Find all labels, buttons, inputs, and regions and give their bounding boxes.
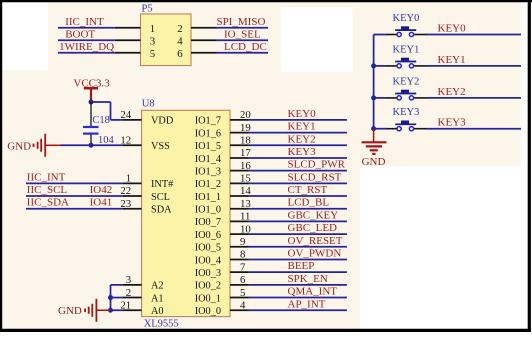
pushbutton KEY3 <box>386 128 397 130</box>
svg-text:KEY2: KEY2 <box>438 86 466 98</box>
U8 pin 16 (IO1_3) <box>230 170 249 172</box>
svg-text:IIC_SDA: IIC_SDA <box>27 197 69 209</box>
svg-text:IO1_2: IO1_2 <box>195 179 221 190</box>
junction <box>371 126 376 131</box>
U8 pin 14 (IO1_1) <box>230 195 249 197</box>
wire <box>249 284 347 286</box>
wire <box>217 52 269 54</box>
svg-text:4: 4 <box>177 36 183 48</box>
wire <box>426 97 521 99</box>
svg-text:LCD_BL: LCD_BL <box>288 197 330 209</box>
wire <box>26 195 123 197</box>
wire <box>249 132 347 134</box>
wire <box>249 297 347 299</box>
U8 pin 13 (IO1_0) <box>230 208 249 210</box>
svg-text:IIC_INT: IIC_INT <box>65 16 104 28</box>
P5 pin 5 <box>115 52 141 54</box>
svg-text:IO_SEL: IO_SEL <box>224 28 261 40</box>
svg-text:3: 3 <box>150 36 155 48</box>
wire <box>374 34 387 36</box>
svg-text:U8: U8 <box>142 99 155 110</box>
svg-text:IO1_0: IO1_0 <box>195 205 221 216</box>
svg-text:6: 6 <box>177 48 183 60</box>
U8 pin 11 (IO0_7) <box>230 220 249 222</box>
U8 pin 24 (VDD) <box>123 119 142 121</box>
svg-text:IO0_1: IO0_1 <box>195 293 221 304</box>
wire <box>249 271 347 273</box>
pushbutton KEY1 <box>386 65 397 67</box>
svg-text:KEY3: KEY3 <box>438 117 467 129</box>
svg-text:4: 4 <box>240 299 246 311</box>
svg-text:INT#: INT# <box>151 179 173 190</box>
wire <box>249 144 347 146</box>
U8 pin 19 (IO1_6) <box>230 132 249 134</box>
U8 pin 18 (IO1_5) <box>230 144 249 146</box>
svg-text:VDD: VDD <box>151 116 174 127</box>
svg-text:KEY0: KEY0 <box>288 108 317 120</box>
svg-text:IO0_3: IO0_3 <box>195 268 221 279</box>
svg-text:IO1_3: IO1_3 <box>195 166 221 177</box>
svg-text:12: 12 <box>120 134 131 146</box>
svg-text:KEY3: KEY3 <box>393 107 420 118</box>
svg-text:IO1_6: IO1_6 <box>195 128 221 139</box>
wire A2 bus <box>111 284 123 286</box>
svg-text:QMA_INT: QMA_INT <box>288 286 338 298</box>
wire <box>217 39 269 41</box>
svg-text:KEY0: KEY0 <box>393 13 420 24</box>
svg-text:2: 2 <box>126 287 131 299</box>
svg-text:OV_PWDN: OV_PWDN <box>288 247 342 259</box>
connector P5 body <box>141 14 192 66</box>
svg-text:KEY1: KEY1 <box>288 121 316 133</box>
U8 pin 21 (A0) <box>123 309 142 311</box>
svg-text:IO1_1: IO1_1 <box>195 192 221 203</box>
U8 pin 22 (SCL) <box>123 195 142 197</box>
U8 pin 12 (VSS) <box>123 144 142 146</box>
svg-text:IO42: IO42 <box>90 184 113 196</box>
P5 pin 6 <box>191 52 217 54</box>
svg-text:IO0_5: IO0_5 <box>195 243 221 254</box>
junction <box>371 63 376 68</box>
junction <box>371 95 376 100</box>
svg-text:3: 3 <box>126 274 131 286</box>
U8 pin 4 (IO0_0) <box>230 309 249 311</box>
wire key bus <box>373 35 375 129</box>
svg-text:IO0_0: IO0_0 <box>195 306 221 317</box>
svg-text:KEY3: KEY3 <box>288 146 317 158</box>
svg-text:OV_RESET: OV_RESET <box>288 235 343 247</box>
svg-text:IO0_7: IO0_7 <box>195 217 221 228</box>
svg-text:GBC_LED: GBC_LED <box>288 222 338 234</box>
U8 pin 17 (IO1_4) <box>230 157 249 159</box>
wire <box>249 258 347 260</box>
svg-text:BEEP: BEEP <box>288 260 315 272</box>
svg-text:LCD_DC: LCD_DC <box>224 41 267 53</box>
pushbutton KEY2 <box>386 97 397 99</box>
U8 pin 2 (A1) <box>123 297 142 299</box>
svg-text:SPK_EN: SPK_EN <box>288 273 328 285</box>
wire <box>249 182 347 184</box>
P5 pin 3 <box>115 39 141 41</box>
wire <box>426 65 521 67</box>
wire <box>58 52 115 54</box>
U8 pin 23 (SDA) <box>123 208 142 210</box>
junction <box>89 143 94 148</box>
svg-text:KEY0: KEY0 <box>438 23 467 35</box>
svg-text:SLCD_PWR: SLCD_PWR <box>288 159 346 171</box>
P5 pin 4 <box>191 39 217 41</box>
svg-text:KEY1: KEY1 <box>393 44 420 55</box>
wire <box>249 233 347 235</box>
svg-text:IO1_4: IO1_4 <box>195 154 221 165</box>
svg-text:AP_INT: AP_INT <box>288 298 326 310</box>
U8 pin 8 (IO0_4) <box>230 258 249 260</box>
P5 pin 1 <box>115 27 141 29</box>
wire <box>26 182 123 184</box>
wire <box>249 157 347 159</box>
svg-text:IIC_INT: IIC_INT <box>27 171 66 183</box>
wire <box>58 27 115 29</box>
U8 pin 20 (IO1_7) <box>230 119 249 121</box>
svg-text:KEY2: KEY2 <box>393 76 420 87</box>
wire VCC to junction <box>90 100 92 104</box>
svg-text:6: 6 <box>240 274 246 286</box>
svg-text:IO0_4: IO0_4 <box>195 255 221 266</box>
wire <box>249 195 347 197</box>
svg-text:1WIRE_DQ: 1WIRE_DQ <box>59 41 114 53</box>
svg-text:XL9555: XL9555 <box>144 319 179 330</box>
U8 pin 9 (IO0_5) <box>230 246 249 248</box>
svg-text:SCL: SCL <box>151 192 170 203</box>
svg-text:P5: P5 <box>142 4 153 15</box>
wire <box>426 34 521 36</box>
U8 pin 10 (IO0_6) <box>230 233 249 235</box>
svg-text:9: 9 <box>240 236 245 248</box>
svg-text:IO1_5: IO1_5 <box>195 141 221 152</box>
svg-text:11: 11 <box>240 211 250 223</box>
U8 pin 1 (INT#) <box>123 182 142 184</box>
svg-text:BOOT: BOOT <box>65 28 95 40</box>
svg-text:8: 8 <box>240 249 245 261</box>
svg-text:1: 1 <box>150 23 155 35</box>
wire <box>249 119 347 121</box>
wire to U8 pin 24 <box>91 101 111 103</box>
U8 pin 15 (IO1_2) <box>230 182 249 184</box>
wire <box>374 128 387 130</box>
svg-text:7: 7 <box>240 261 246 273</box>
U8 pin 3 (A2) <box>123 284 142 286</box>
P5 pin 2 <box>191 27 217 29</box>
wire <box>374 65 387 67</box>
wire A1 <box>111 297 123 299</box>
svg-text:KEY2: KEY2 <box>288 133 316 145</box>
wire <box>249 309 347 311</box>
wire <box>217 27 269 29</box>
wire <box>26 208 123 210</box>
svg-text:VSS: VSS <box>151 141 170 152</box>
svg-text:IO1_7: IO1_7 <box>195 116 221 127</box>
svg-text:1: 1 <box>126 173 131 185</box>
svg-text:2: 2 <box>177 23 182 35</box>
svg-text:5: 5 <box>240 287 245 299</box>
svg-text:IO41: IO41 <box>90 197 113 209</box>
junction <box>89 100 94 105</box>
svg-text:SDA: SDA <box>151 205 172 216</box>
svg-text:A0: A0 <box>151 306 164 317</box>
IC U8 body <box>142 110 230 316</box>
ground GND (keys) <box>373 129 375 142</box>
svg-text:A2: A2 <box>151 281 164 292</box>
U8 pin 5 (IO0_1) <box>230 297 249 299</box>
wire <box>374 97 387 99</box>
svg-text:24: 24 <box>120 109 131 121</box>
wire A0 <box>111 309 123 311</box>
pushbutton KEY0 <box>386 34 397 36</box>
svg-text:A1: A1 <box>151 293 164 304</box>
capacitor C18 <box>90 102 92 126</box>
svg-text:GBC_KEY: GBC_KEY <box>288 209 339 221</box>
wire GND to VSS <box>61 144 123 146</box>
svg-text:SLCD_RST: SLCD_RST <box>288 171 342 183</box>
junction <box>108 308 113 313</box>
svg-text:GND: GND <box>58 305 82 317</box>
svg-text:GND: GND <box>362 156 386 168</box>
svg-text:CT_RST: CT_RST <box>288 184 328 196</box>
svg-text:C18: C18 <box>92 115 110 126</box>
svg-text:KEY1: KEY1 <box>438 54 466 66</box>
svg-text:5: 5 <box>150 48 155 60</box>
svg-text:IO0_6: IO0_6 <box>195 230 221 241</box>
svg-text:GND: GND <box>7 141 31 153</box>
svg-text:IO0_2: IO0_2 <box>195 281 221 292</box>
U8 pin 7 (IO0_3) <box>230 271 249 273</box>
wire <box>58 39 115 41</box>
wire <box>249 208 347 210</box>
wire <box>249 220 347 222</box>
junction <box>108 295 113 300</box>
U8 pin 6 (IO0_2) <box>230 284 249 286</box>
wire <box>426 128 521 130</box>
wire <box>249 170 347 172</box>
svg-text:IIC_SCL: IIC_SCL <box>27 184 68 196</box>
svg-text:SPI_MISO: SPI_MISO <box>217 16 266 28</box>
wire <box>249 246 347 248</box>
